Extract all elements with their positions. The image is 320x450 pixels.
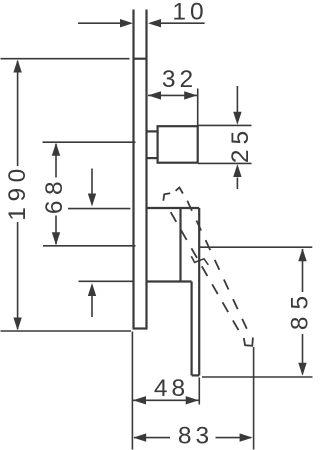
ext line 25 bottom: [198, 162, 252, 164]
svg-text:190: 190: [4, 163, 31, 220]
wall face extension line: [131, 332, 133, 450]
lever bottom cap: [192, 374, 200, 376]
dim 83 line: [134, 437, 170, 439]
knob stem top: [148, 130, 158, 132]
ext line body top: [68, 208, 130, 210]
ext line 25 top: [198, 124, 252, 126]
dim 190 line: [17, 61, 19, 166]
svg-text:48: 48: [154, 375, 189, 402]
dashed lever right line: [187, 201, 247, 329]
dim 48 line: [133, 399, 199, 401]
dashed tip extension line: [253, 347, 255, 450]
dashed lever bottom cap: [244, 338, 253, 346]
lever left edge: [191, 282, 193, 376]
arrow to body bottom: [91, 294, 93, 317]
handle body bottom edge: [147, 280, 192, 282]
svg-text:10: 10: [172, 0, 207, 26]
wall plate bottom cap: [133, 327, 148, 329]
dim 10 right leader: [160, 22, 205, 24]
ext line 85 bottom: [202, 376, 313, 378]
arrow to body top: [91, 169, 93, 197]
dashed lever top-left corner: [163, 193, 170, 201]
ext line 32 right: [197, 89, 199, 127]
handle body inner vertical: [179, 208, 181, 282]
svg-text:32: 32: [162, 66, 197, 93]
wall plate right edge: [145, 10, 147, 329]
body top line across plate: [134, 58, 147, 60]
arrow 25 bottom: [236, 178, 238, 190]
svg-text:85: 85: [287, 289, 314, 330]
knob stem bottom: [148, 157, 158, 159]
lever right edge: [198, 208, 200, 375]
ext line body bottom: [79, 280, 134, 282]
svg-text:83: 83: [178, 423, 213, 450]
dashed lever top-right corner: [176, 188, 183, 194]
dim 68 line: [55, 144, 57, 178]
ext line 85 top: [200, 246, 312, 248]
svg-text:25: 25: [227, 126, 254, 163]
dim 85 line: [302, 249, 304, 292]
ext line 48 right: [198, 378, 200, 405]
ext line 190 top: [1, 58, 130, 60]
dashed lever left line: [171, 212, 239, 330]
ext line 68 top: [43, 141, 136, 143]
dim 10 left leader: [78, 22, 121, 24]
ext line 190 bottom: [1, 330, 132, 332]
wall plate left edge: [132, 10, 134, 329]
dashed lever break zigzag: [191, 256, 208, 265]
ext line 68 bottom: [43, 245, 136, 247]
dim 32 line: [148, 94, 197, 96]
handle body top edge: [147, 207, 200, 209]
knob rectangle: [158, 126, 198, 163]
svg-text:68: 68: [41, 176, 68, 214]
arrow 25 top: [236, 86, 238, 113]
